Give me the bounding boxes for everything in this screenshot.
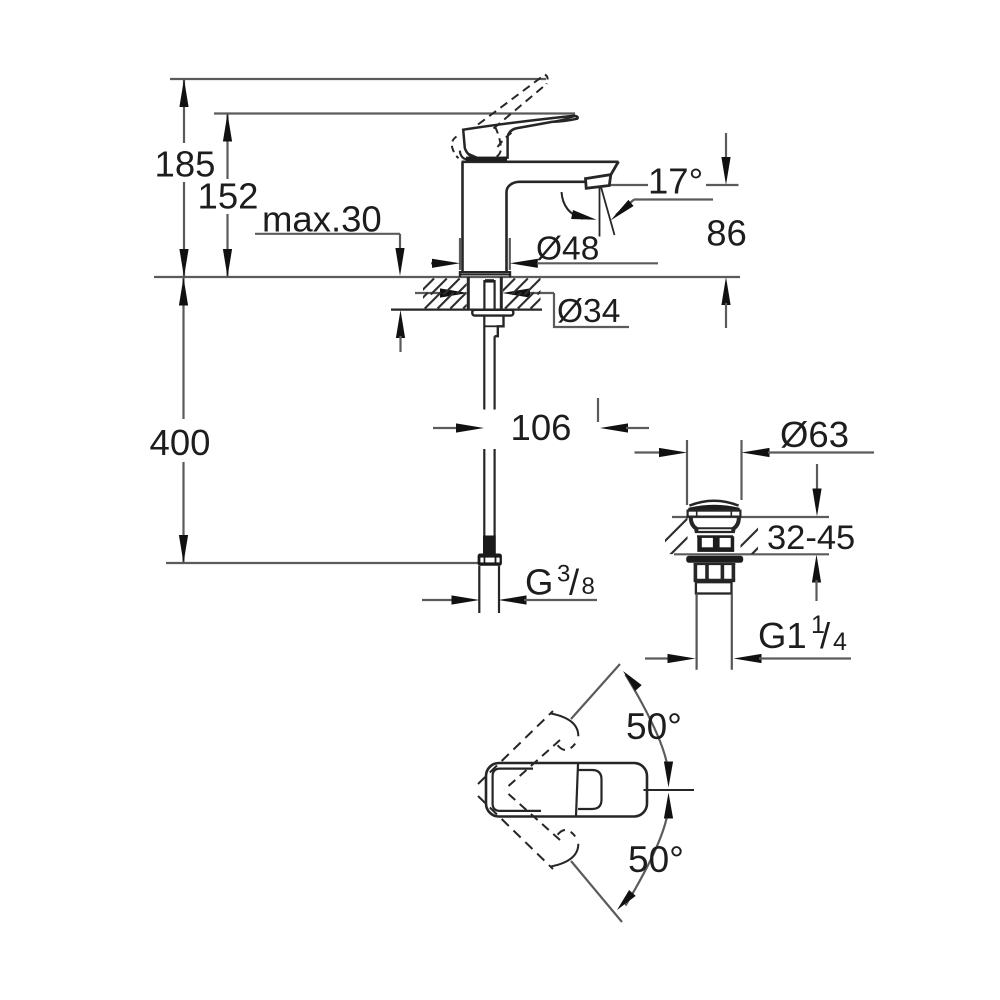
svg-text:50°: 50° xyxy=(628,839,684,880)
O63 extension lines xyxy=(686,440,688,505)
handle top view inner left cap line xyxy=(493,769,541,811)
max.30 arrow below countertop xyxy=(396,310,405,338)
dimension 86 upper arrow xyxy=(725,133,727,160)
faucet body left edge xyxy=(461,162,464,272)
flow angle leader with arrow xyxy=(634,198,713,200)
spout tip right edge xyxy=(611,162,619,175)
countertop hatching left of shank xyxy=(412,279,524,309)
svg-text:17°: 17° xyxy=(648,161,703,202)
drain collar with windows xyxy=(694,563,736,565)
svg-text:8: 8 xyxy=(582,573,595,600)
lever end cap inner line xyxy=(552,116,575,121)
lower dashed rotated handle xyxy=(478,796,553,869)
106 dimension arrows xyxy=(433,427,458,429)
svg-text:G1: G1 xyxy=(758,615,807,656)
drain countertop hatching left xyxy=(650,517,765,556)
water stream vertical line xyxy=(599,187,601,237)
drain body slot section xyxy=(697,536,734,552)
extension line (152 level, lever tip) xyxy=(214,112,575,114)
svg-text:G: G xyxy=(525,562,553,603)
countertop hatching right of shank xyxy=(499,279,585,309)
G 3/8 dimension arrows xyxy=(422,599,452,601)
faucet body top line xyxy=(462,161,619,164)
drain body neck flares xyxy=(691,518,697,532)
svg-text:50°: 50° xyxy=(626,706,682,747)
raised lever dashed upper edge xyxy=(494,84,547,129)
lower 50deg ray xyxy=(571,861,622,922)
handle chin lip xyxy=(460,151,475,161)
106 extension line xyxy=(597,398,599,422)
drain lower box xyxy=(696,582,732,593)
pivot axis cross xyxy=(644,789,695,791)
O63 dimension arrows xyxy=(635,451,661,453)
dimension 86 lower arrow xyxy=(721,277,730,305)
supply hose inside shank xyxy=(483,280,485,315)
svg-text:Ø48: Ø48 xyxy=(536,231,599,268)
upper 50deg ray xyxy=(571,664,620,719)
G1 1/4 dimension arrows xyxy=(645,657,670,659)
drain countertop hatching right xyxy=(731,517,846,556)
handle top view seam line xyxy=(576,764,578,816)
drain countertop top line xyxy=(672,516,829,518)
O48 dimension arrows xyxy=(431,262,434,264)
raised handle dashed base left edge xyxy=(493,127,501,159)
extension line top (185 level, raised lever tip) xyxy=(170,78,546,80)
max.30 arrow to countertop top xyxy=(399,250,401,262)
svg-text:/: / xyxy=(820,615,831,656)
mounting washer xyxy=(472,310,513,316)
svg-text:4: 4 xyxy=(833,628,847,656)
aerator xyxy=(586,175,611,189)
upper dashed rotated handle xyxy=(478,711,553,784)
32-45 lower arrow xyxy=(812,555,821,583)
supply hose lower segment xyxy=(483,449,485,536)
raised lever dashed lower edge xyxy=(478,75,545,125)
dimension 185 vertical line xyxy=(183,79,185,143)
drain body rings xyxy=(696,527,735,529)
lever handle solid xyxy=(463,116,577,159)
hose connection nut xyxy=(478,554,502,566)
faucet body right edge and spout underside xyxy=(507,182,585,272)
lower 50deg arc xyxy=(626,800,669,906)
flow angle arc with arrow xyxy=(562,192,584,219)
threaded shank walls xyxy=(467,277,470,310)
svg-text:106: 106 xyxy=(511,407,572,448)
17deg leader line xyxy=(609,184,648,186)
svg-text:Ø34: Ø34 xyxy=(557,293,620,330)
dimension 400 vertical line xyxy=(182,277,184,419)
raised handle dashed base right edge xyxy=(498,130,515,147)
hose fitting steps xyxy=(495,316,504,337)
drain push cap dome xyxy=(689,501,738,506)
svg-text:/: / xyxy=(569,562,580,603)
handle top view outline xyxy=(486,763,647,817)
raised lever dashed tip cap xyxy=(545,75,548,85)
max.30 leader xyxy=(255,233,400,235)
drain countertop bottom line xyxy=(674,553,829,555)
G3/8 threaded pipe xyxy=(478,566,480,613)
countertop underside line xyxy=(391,309,542,311)
32-45 upper arrow xyxy=(816,464,818,492)
svg-text:152: 152 xyxy=(198,176,259,217)
svg-text:Ø63: Ø63 xyxy=(780,414,849,455)
handle chin accent xyxy=(468,154,481,160)
supply hose upper segment xyxy=(483,316,485,410)
raised handle dashed left corner arc xyxy=(452,137,459,159)
handle base shadow band xyxy=(466,157,507,162)
water stream tilted line xyxy=(601,187,615,235)
drain cap rim xyxy=(688,511,741,517)
drain locknut xyxy=(686,556,743,563)
svg-text:32-45: 32-45 xyxy=(767,519,855,557)
hose crimp collar xyxy=(483,536,496,554)
svg-text:400: 400 xyxy=(150,422,211,463)
handle top view inner rounded detail xyxy=(578,770,602,809)
upper 50deg arc xyxy=(626,675,669,781)
base flange xyxy=(460,272,510,277)
O34 leader bracket xyxy=(554,293,629,327)
dimension 152 vertical line xyxy=(226,114,228,180)
O34 dimension arrows at shank xyxy=(415,292,440,294)
drain tailpipe xyxy=(695,594,697,670)
O48 extension lines xyxy=(459,238,461,270)
countertop surface line xyxy=(154,276,740,278)
svg-text:86: 86 xyxy=(706,213,747,254)
extension line bottom (hose end level) xyxy=(166,562,478,564)
